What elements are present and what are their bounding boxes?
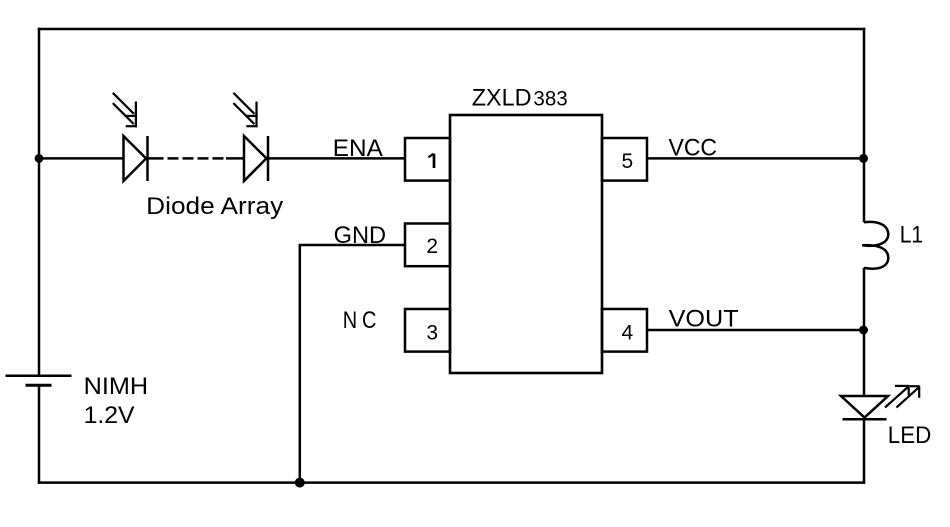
svg-text:Diode Array: Diode Array: [146, 193, 284, 220]
node GND junction: [295, 478, 305, 488]
battery BT1 short plate: [26, 384, 52, 387]
pin 1 box: [405, 138, 450, 181]
wire dashed array link: [168, 157, 179, 160]
node VOUT junction: [859, 326, 868, 335]
svg-text:GND: GND: [334, 222, 387, 249]
svg-text:3: 3: [426, 322, 438, 345]
svg-text:ZXLD383: ZXLD383: [472, 85, 568, 112]
svg-text:ENA: ENA: [333, 135, 384, 162]
pin 5 box: [602, 138, 647, 181]
pin 3 box: [405, 309, 450, 352]
svg-text:4: 4: [622, 322, 634, 345]
svg-text:NIMH: NIMH: [84, 373, 149, 400]
inductor L1 coil: [862, 222, 888, 269]
wire right rail lower: [863, 419, 866, 484]
pin 2 box: [405, 224, 450, 267]
node A left junction: [35, 154, 44, 163]
wire GND net pin 2 to bottom: [300, 245, 405, 483]
LED D3 triangle: [841, 396, 888, 418]
diode D1 triangle: [124, 136, 147, 181]
wire top border: [38, 28, 865, 31]
wire anode diode D2: [226, 157, 244, 160]
svg-text:L1: L1: [900, 221, 924, 248]
pin 1 number: [428, 154, 434, 168]
LED D3 cathode bar: [843, 418, 887, 421]
wire right rail upper: [863, 28, 866, 223]
wire diode D1 cathode stub: [148, 157, 164, 160]
wire right rail mid: [863, 268, 866, 397]
svg-text:NC: NC: [343, 307, 382, 334]
diode D1 cathode bar: [146, 136, 149, 181]
wire left rail lower: [38, 385, 41, 484]
svg-text:VCC: VCC: [669, 135, 718, 162]
node VCC junction: [859, 154, 868, 163]
diode D2 cathode bar: [267, 136, 270, 181]
diode D2 triangle: [244, 136, 267, 181]
photodiode D1 light arrows: [113, 93, 137, 128]
wire left rail upper: [38, 28, 41, 376]
svg-text:2: 2: [426, 235, 438, 258]
svg-text:1.2V: 1.2V: [84, 402, 136, 429]
wire VOUT net pin 4 to right rail: [647, 329, 864, 332]
wire anode diode D1: [39, 157, 124, 160]
svg-text:LED: LED: [888, 422, 932, 449]
LED D3 light arrows: [885, 386, 920, 408]
wire ENA net to pin 1: [268, 157, 405, 160]
op-amp U1 ZXLD383 body: [450, 115, 602, 373]
svg-text:VOUT: VOUT: [669, 306, 739, 333]
photodiode D2 light arrows: [233, 93, 257, 128]
svg-text:5: 5: [622, 150, 634, 173]
wire bottom border: [38, 481, 865, 484]
battery BT1 long plate: [6, 375, 72, 378]
wire VCC net pin 5 to right rail: [647, 157, 864, 160]
pin 4 box: [602, 309, 647, 352]
